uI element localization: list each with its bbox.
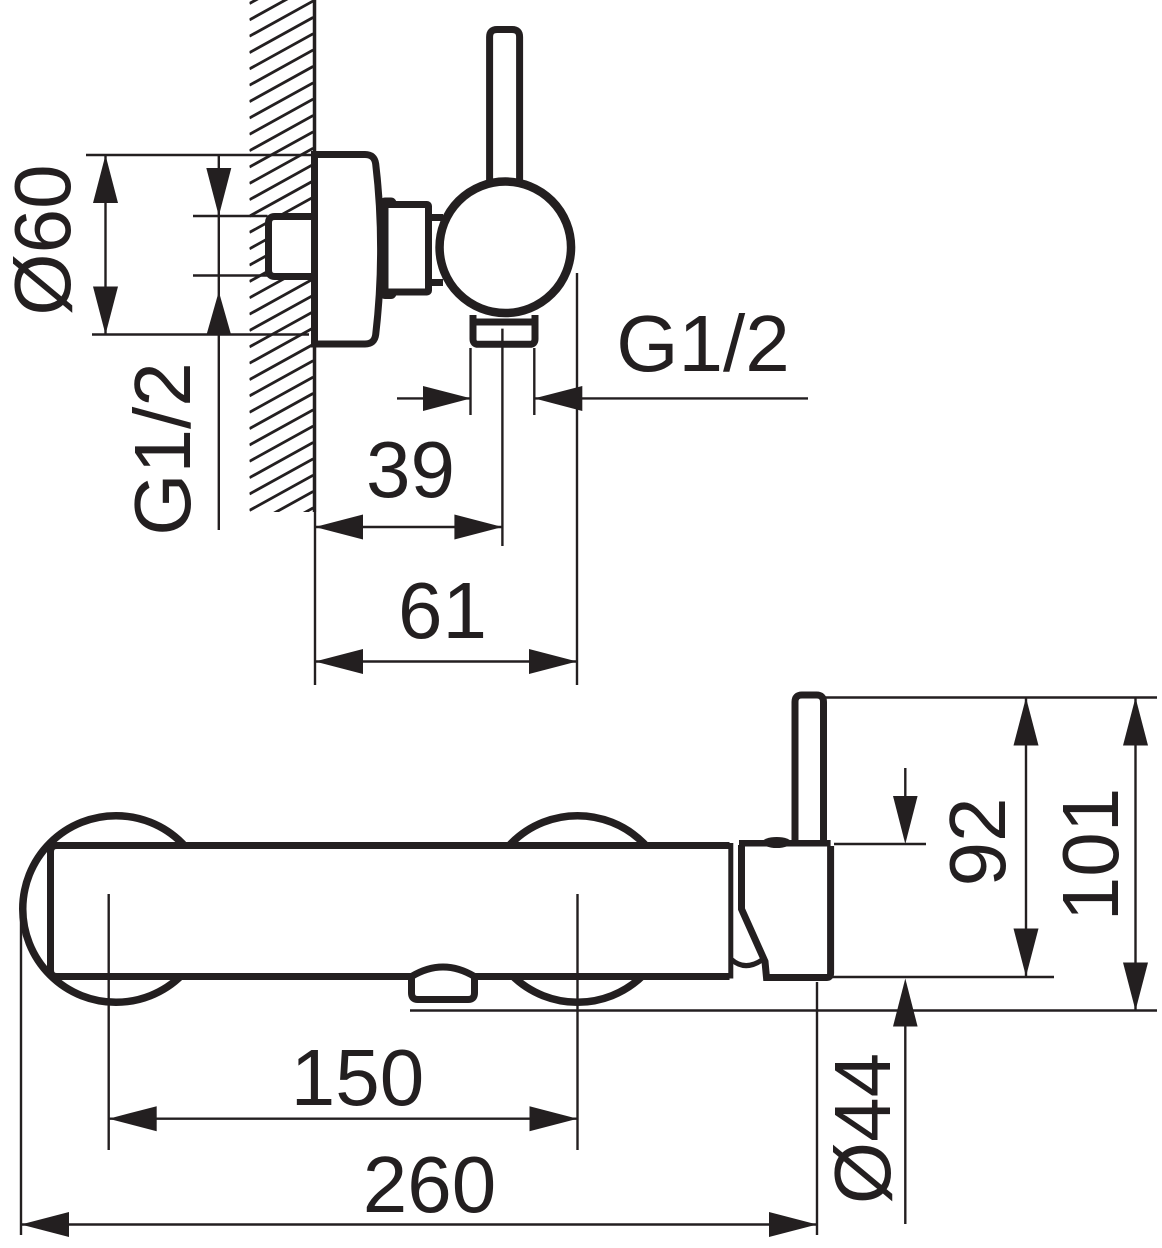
valve body circle [440, 182, 572, 313]
arrow 39 right [454, 515, 502, 540]
bottom ext line (101) [410, 1009, 1157, 1011]
arrow G1/2 outlet right [534, 386, 582, 411]
junction stub top [428, 214, 443, 221]
92 dim line [1025, 698, 1027, 977]
dim line 39 [315, 526, 502, 528]
G1/2 right dim line right part [534, 397, 808, 399]
inlet pipe behind wall [269, 217, 314, 277]
arrow 92 top [1014, 698, 1039, 746]
ext line bottom Ø60 [92, 333, 309, 335]
arrow Ø44 bottom [893, 979, 918, 1027]
Ø60 dim line [104, 155, 106, 335]
lever base ellipse [762, 837, 791, 848]
arrow 260 left [21, 1212, 69, 1237]
arrow 101 bottom [1123, 963, 1148, 1011]
dimension thin lines : bottom view [21, 698, 1157, 1236]
circle right ext line [576, 273, 578, 685]
svg-text:150: 150 [291, 1033, 424, 1122]
handle lever rod (side view) [490, 30, 520, 191]
wall flange circle right [484, 816, 671, 1003]
outlet nut G1/2 [473, 315, 535, 344]
handle rod (bottom view) [795, 695, 824, 846]
connector collar [383, 201, 393, 296]
handle top ext line [825, 696, 1157, 698]
housing top edge [739, 840, 831, 847]
body bottom ext line (92 / Ø44) [813, 976, 1054, 978]
arrow G1/2 outlet left [423, 386, 471, 411]
svg-text:260: 260 [363, 1140, 496, 1229]
arrow G1/2 pipe bottom [206, 292, 231, 336]
G1/2 left dim line [218, 155, 220, 530]
arrow 61 left [315, 649, 363, 674]
pipe top ext line [193, 215, 268, 217]
Ø44 leader upper [904, 768, 906, 800]
body right end edge [728, 843, 733, 979]
outlet right ext line [533, 348, 535, 415]
ext line top of flange [86, 154, 315, 156]
arrow 150 left [109, 1106, 157, 1131]
junction stub bottom [428, 279, 443, 286]
arrow Ø60 top [93, 155, 118, 203]
wall flange circle left [23, 816, 210, 1003]
svg-text:Ø44: Ø44 [818, 1053, 907, 1204]
150 right ext line [576, 894, 578, 1150]
wall [313, 0, 317, 512]
cartridge housing [742, 845, 831, 978]
G1/2 right dim line left part [397, 397, 471, 399]
260 dim line [21, 1223, 817, 1225]
arrowheads side view [93, 155, 582, 674]
arrow 61 right [529, 649, 577, 674]
connector body [385, 205, 429, 293]
pipe bottom ext line [193, 274, 268, 276]
dimension thin lines : side view [86, 155, 808, 685]
150 left ext line [107, 894, 109, 1150]
svg-text:G1/2: G1/2 [118, 362, 207, 535]
body top ext line (Ø44) [834, 843, 926, 845]
arrow 92 bottom [1014, 929, 1039, 977]
dim line 61 [315, 660, 577, 662]
arrowheads bottom view [21, 698, 1148, 1238]
dome arc [732, 960, 763, 966]
arrow 101 top [1123, 698, 1148, 746]
arrow 260 right [769, 1212, 817, 1237]
arrow 150 right [530, 1106, 578, 1131]
arrow 39 left [315, 515, 363, 540]
260 right ext line [816, 982, 818, 1235]
150 dim line [109, 1117, 578, 1119]
outlet centerline [501, 329, 503, 546]
wall extension line [314, 512, 316, 685]
260 left ext line [20, 913, 22, 1235]
svg-text:Ø60: Ø60 [0, 164, 87, 315]
outlet spout [412, 967, 475, 1000]
arrow Ø60 bottom [93, 287, 118, 335]
flange escutcheon Ø60 [315, 155, 381, 345]
svg-text:92: 92 [933, 798, 1022, 887]
svg-text:G1/2: G1/2 [616, 299, 789, 388]
arrow Ø44 top [893, 796, 918, 844]
101 dim line [1134, 698, 1136, 1011]
faucet body tube [51, 846, 730, 977]
svg-text:101: 101 [1046, 788, 1135, 921]
outlet left ext line [469, 348, 471, 415]
svg-text:61: 61 [398, 566, 487, 655]
wall hatching [250, 0, 314, 543]
svg-text:39: 39 [366, 425, 455, 514]
arrow G1/2 pipe top [206, 168, 231, 216]
Ø44 leader lower [904, 1022, 906, 1224]
